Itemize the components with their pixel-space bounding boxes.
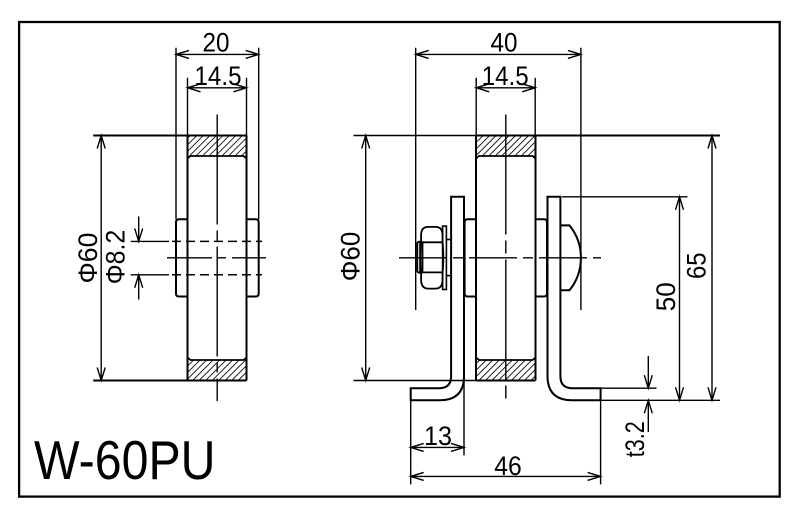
bolt tip	[417, 242, 422, 273]
dimension 13 : arrow left	[411, 443, 424, 451]
svg-text:14.5: 14.5	[195, 61, 242, 91]
dimension 50 : dimension line	[679, 197, 681, 400]
foot bottom edge extended as common extension line for t3.2 50 65	[601, 399, 720, 401]
dimension phi8.2 : upper arrow tail	[138, 217, 140, 242]
right wheel bottom edge	[476, 380, 536, 382]
dimension 14.5 left view : arrow right	[234, 84, 247, 92]
dimension phi8.2 : lower arrowhead pointing up	[135, 275, 143, 288]
hex nut outline	[420, 227, 443, 289]
dimension phi8.2 : lower arrow tail	[138, 275, 140, 300]
hub boss right	[247, 219, 259, 296]
dimension 13 : dimension line	[411, 446, 464, 448]
t3.2 lower arrow tail	[647, 400, 649, 432]
dimension phi8.2 : extension line bottom	[131, 274, 169, 276]
dimension phi60 right view : arrow top	[362, 136, 370, 149]
tire top band bottom edge with chamfers	[188, 156, 247, 159]
wheel tread left face	[187, 136, 189, 381]
dimension phi60 : dimension line	[100, 136, 102, 381]
dimension 14.5 left view : dimension line	[188, 87, 247, 89]
t3.2 upper arrow tail	[647, 356, 649, 388]
svg-text:Φ8.2: Φ8.2	[100, 230, 130, 285]
dimension phi60 right view : arrow bottom	[362, 368, 370, 381]
hex nut facet line upper	[421, 241, 443, 243]
dimension 20 : extension lines	[175, 48, 177, 220]
hub boss left	[176, 219, 188, 296]
dimension 65 : arrow bottom	[708, 387, 716, 400]
right view vertical centerline	[505, 115, 507, 402]
bolt shank upper line between washer and plate	[446, 239, 451, 241]
right wheel top edge + 65 extension line	[476, 135, 720, 137]
dimension phi60 right view : extension bottom	[354, 380, 477, 382]
left plate right face extended as 13 extension line	[463, 375, 465, 455]
svg-text:13: 13	[424, 421, 452, 451]
carriage bolt dome head	[560, 225, 581, 290]
svg-text:Φ60: Φ60	[73, 233, 103, 284]
dimension phi60 right view : extension top	[354, 135, 477, 137]
dimension 46 : arrow right	[588, 472, 601, 480]
dimension 50 : extension line from plate top	[562, 196, 688, 198]
bore hidden line bottom	[172, 274, 262, 276]
dimension 40 : arrow right	[568, 50, 581, 58]
wheel bottom edge + phi60 bottom extension line	[93, 380, 246, 382]
right hub boss right	[536, 219, 548, 296]
svg-text:t3.2: t3.2	[620, 421, 650, 457]
bolt shank lower line between washer and plate	[446, 275, 451, 277]
hex nut facet line lower	[421, 271, 443, 273]
dimension 40 : extension line left	[415, 48, 417, 310]
dimension 20 : dimension line	[176, 53, 259, 55]
dimension 14.5 left view : arrow left	[188, 84, 201, 92]
dimension 65 : arrow top	[708, 136, 716, 149]
right tire top band bottom edge with chamfers	[476, 156, 536, 159]
dimension 40 : arrow left	[416, 50, 429, 58]
svg-text:46: 46	[494, 451, 522, 481]
dimension 40 : extension line right	[580, 48, 582, 310]
washer	[443, 226, 447, 289]
dimension 20 : arrow left	[176, 50, 189, 58]
tire top hatch area	[188, 136, 247, 159]
wheel horizontal centerline	[167, 257, 266, 259]
bore hidden line top	[172, 240, 262, 242]
right tire bottom band top edge with chamfers	[476, 357, 536, 360]
svg-text:14.5: 14.5	[482, 61, 529, 91]
right tire top hatch area	[476, 136, 536, 159]
svg-text:65: 65	[681, 253, 711, 280]
dimension phi60 right view : dimension line	[365, 136, 367, 381]
right wheel tread left face	[475, 136, 477, 381]
right bracket plate with foot to the right	[548, 197, 601, 400]
dimension 13 : arrow right	[451, 443, 464, 451]
wheel top edge + phi60 top extension line	[93, 135, 246, 137]
dimension 13 and 46 : left extension line from left foot tip	[410, 388, 412, 485]
dimension 14.5 right view : arrow right	[522, 84, 535, 92]
wheel vertical centerline	[216, 115, 218, 402]
wheel tread right face	[246, 136, 248, 381]
right view horizontal centerline	[399, 257, 601, 259]
dimension phi8.2 : upper arrowhead pointing down	[135, 228, 143, 241]
dimension 14.5 right view : dimension line	[476, 87, 535, 89]
dimension 50 : arrow top	[676, 197, 684, 210]
dimension 50 : arrow bottom	[676, 387, 684, 400]
svg-text:40: 40	[491, 28, 518, 58]
bolt tip chamfer line	[419, 242, 421, 272]
dimension 40 : dimension line	[416, 53, 581, 55]
svg-text:W-60PU: W-60PU	[34, 430, 216, 491]
dimension phi60 : arrow top	[97, 136, 105, 149]
dimension 65 : dimension line	[711, 136, 713, 401]
right tire bottom hatch area	[476, 357, 536, 380]
tire bottom band top edge with chamfers	[188, 357, 247, 360]
dimension phi8.2 : extension line top	[131, 240, 169, 242]
t3.2 upper arrowhead pointing down	[644, 375, 652, 388]
dimension 46 : dimension line	[411, 475, 601, 477]
dimension 20 : arrow right	[246, 50, 259, 58]
right hub boss left	[465, 219, 476, 296]
t3.2 top extension line from foot top	[601, 387, 657, 389]
tire bottom hatch area	[188, 357, 247, 380]
t3.2 lower arrowhead pointing up	[644, 400, 652, 413]
dimension 14.5 right view : extension lines	[475, 78, 477, 136]
left bracket plate with foot to the left	[411, 197, 464, 400]
dimension 46 : right extension line from right foot tip	[600, 388, 602, 484]
svg-text:20: 20	[203, 28, 230, 58]
dimension 46 : arrow left	[411, 472, 424, 480]
dimension 14.5 right view : arrow left	[476, 84, 489, 92]
svg-text:Φ60: Φ60	[336, 232, 366, 282]
right wheel tread right face	[535, 136, 537, 381]
dimension phi60 : arrow bottom	[97, 368, 105, 381]
svg-text:50: 50	[651, 282, 681, 311]
dimension 14.5 left view : extension lines	[187, 78, 189, 136]
